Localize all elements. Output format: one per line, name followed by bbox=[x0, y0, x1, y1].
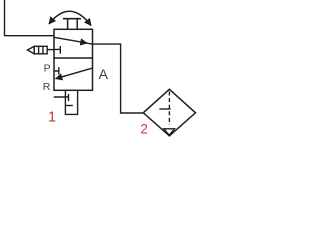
svg-text:R: R bbox=[43, 81, 51, 93]
svg-text:2: 2 bbox=[140, 122, 148, 137]
svg-text:A: A bbox=[99, 66, 109, 82]
svg-text:P: P bbox=[44, 63, 51, 75]
svg-text:1: 1 bbox=[48, 110, 56, 126]
